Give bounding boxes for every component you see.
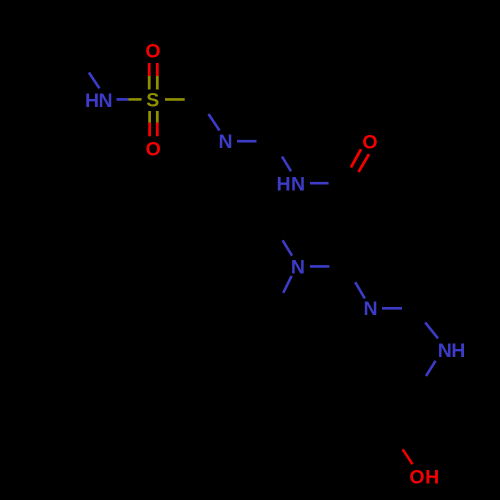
bond S-CH2 (S half) bbox=[165, 98, 185, 101]
bond N-CH2 right (N half) bbox=[237, 140, 257, 143]
svg-text:H: H bbox=[276, 174, 290, 196]
bond C=O carbonyl, line 2 (O half red) bbox=[359, 154, 370, 172]
bond C=O carbonyl, line 1 (O half red) bbox=[351, 149, 361, 167]
svg-text:S: S bbox=[146, 89, 159, 111]
bond S=O bottom, line 2 bbox=[156, 111, 159, 123]
svg-text:N: N bbox=[291, 257, 305, 279]
svg-text:O: O bbox=[145, 41, 160, 63]
svg-text:O: O bbox=[362, 132, 377, 154]
svg-text:N: N bbox=[438, 340, 452, 362]
bond S=O bottom, line 1 (S half olive, O half red) bbox=[148, 111, 151, 123]
bond NH-C(=O) (N half) bbox=[310, 182, 329, 185]
bond N-S (S half) bbox=[128, 98, 141, 101]
bond C-N2 diagonal (N half) bbox=[355, 282, 365, 298]
atom label OH hydroxyl bbox=[409, 467, 439, 489]
bond N2-C right (N half) bbox=[382, 307, 402, 310]
bond N1-C lower-left (N half) bbox=[283, 276, 291, 293]
bond N1-C right (N half) bbox=[310, 265, 329, 268]
bond C-N1 from above (N half) bbox=[283, 240, 292, 255]
bond NH-CH2 going down (N half) bbox=[426, 361, 436, 376]
svg-text:N: N bbox=[98, 90, 112, 112]
svg-text:O: O bbox=[409, 467, 424, 489]
svg-text:N: N bbox=[363, 298, 377, 320]
bond S=O top, line 1 (O half red, S half olive) bbox=[148, 63, 151, 76]
atom label HN amide bbox=[276, 174, 305, 196]
svg-text:O: O bbox=[146, 139, 161, 161]
svg-text:N: N bbox=[291, 174, 305, 196]
bond CH2-OH (O half) bbox=[403, 449, 413, 464]
svg-text:N: N bbox=[219, 131, 233, 153]
bond S=O top, line 2 bbox=[156, 63, 159, 76]
svg-text:H: H bbox=[425, 467, 439, 489]
bond CH2-N ring (N half) bbox=[209, 114, 220, 131]
svg-text:H: H bbox=[451, 340, 465, 362]
svg-text:H: H bbox=[85, 90, 99, 112]
atom label NH secondary amine bbox=[438, 340, 466, 362]
atom label HN sulfonamide bbox=[85, 90, 113, 112]
bond N(sulfonamide)-C ethyl (N half) bbox=[89, 73, 100, 89]
bond N-S (N half) bbox=[117, 98, 129, 101]
bond C-NH diagonal (N half) bbox=[425, 322, 438, 338]
bond CH2-NH amide (N half) bbox=[282, 157, 291, 172]
